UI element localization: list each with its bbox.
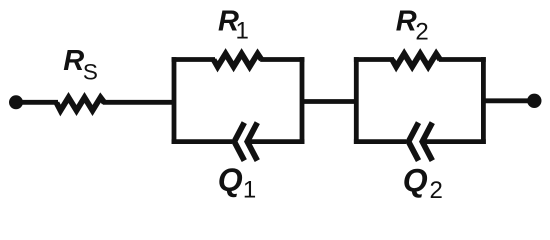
wire: box2 top-right segment (439, 57, 486, 62)
wire: box1 top-right segment (260, 57, 304, 62)
label R1 (218, 6, 249, 45)
CPE Q1 (234, 123, 257, 161)
label R2 (396, 6, 429, 46)
label Q1 (218, 162, 256, 204)
svg-text:Q: Q (403, 162, 428, 198)
left terminal dot (9, 95, 23, 109)
wire: box2 bottom-right segment (423, 139, 486, 144)
wire: box1 bottom-left segment (172, 139, 232, 144)
CPE Q2 (409, 123, 433, 161)
resistor R1 (214, 54, 262, 67)
svg-text:S: S (83, 59, 98, 84)
resistor R2 (392, 54, 440, 67)
svg-text:2: 2 (430, 177, 443, 204)
wire: RS to left box (103, 100, 176, 105)
wire: box1 to box2 (302, 99, 356, 104)
svg-text:Q: Q (218, 162, 243, 198)
wire: box1 top-left segment (172, 57, 215, 62)
node: right box left side (354, 57, 359, 144)
wire: box2 bottom-left segment (354, 139, 406, 144)
svg-text:R: R (63, 45, 84, 77)
node: left box left side (172, 57, 177, 144)
node: right box right side (481, 57, 486, 144)
wire: box2 to right dot (483, 98, 534, 103)
label RS (63, 45, 98, 84)
wire: box1 bottom-right segment (248, 139, 304, 144)
svg-text:2: 2 (415, 18, 428, 45)
label Q2 (403, 162, 443, 204)
right terminal dot (527, 94, 541, 108)
svg-text:1: 1 (236, 18, 249, 45)
node: left box right side (300, 57, 305, 144)
svg-text:R: R (396, 6, 417, 38)
wire: box2 top-left segment (354, 57, 394, 62)
resistor RS (57, 98, 105, 111)
wire: left dot to resistor RS (16, 100, 58, 105)
svg-text:1: 1 (243, 176, 256, 203)
